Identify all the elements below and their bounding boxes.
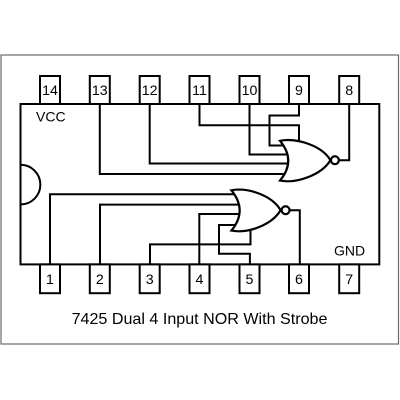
wire pin 13 to gate G2 input	[100, 104, 286, 174]
wire pin 11 strobe to gate G2 top point	[200, 104, 300, 141]
svg-text:6: 6	[295, 272, 303, 288]
IC body 7425	[21, 104, 380, 264]
svg-text:13: 13	[92, 83, 108, 99]
svg-text:14: 14	[42, 83, 58, 99]
pin 7	[339, 264, 359, 293]
schematic frame	[1, 55, 399, 344]
wire pin 9 loop to gate G2 input	[270, 104, 300, 146]
wire pin 12 to gate G2 input	[150, 104, 290, 164]
pin-1 notch	[21, 165, 41, 205]
pin 5	[240, 264, 260, 293]
wire pin 3 strobe to gate G1 bottom point	[150, 230, 251, 265]
svg-text:5: 5	[246, 272, 254, 288]
svg-text:7425 Dual 4 Input NOR With Str: 7425 Dual 4 Input NOR With Strobe	[72, 310, 328, 328]
pin 1	[40, 264, 60, 293]
svg-text:10: 10	[242, 83, 258, 99]
pin 6	[289, 264, 309, 293]
svg-text:1: 1	[46, 272, 54, 288]
pin 3	[140, 264, 160, 293]
svg-text:12: 12	[142, 83, 158, 99]
pin 10	[240, 76, 260, 104]
NOR gate G2 (pins 9,10,11,12,13 -> 8)	[280, 140, 330, 181]
pin 11	[190, 76, 210, 104]
pin 2	[90, 264, 110, 293]
svg-text:GND: GND	[334, 242, 365, 258]
wire pin 10 to gate G2 input	[250, 104, 289, 155]
svg-text:4: 4	[196, 272, 204, 288]
pin 8	[339, 76, 359, 104]
svg-text:7: 7	[345, 272, 353, 288]
pin 4	[190, 264, 210, 293]
inverter bubble G2	[331, 156, 339, 164]
inverter bubble G1	[282, 206, 290, 214]
svg-text:VCC: VCC	[36, 109, 66, 125]
wire gate G2 output to pin 8	[340, 104, 350, 160]
wire pin 5 loop to gate G1 input	[219, 225, 250, 264]
wire pin 2 to gate G1 input	[100, 205, 241, 265]
svg-text:11: 11	[192, 83, 207, 99]
pin 14	[40, 76, 60, 104]
NOR gate G1 (pins 1,2,3,4,5 -> 6)	[231, 190, 280, 232]
svg-text:2: 2	[96, 272, 104, 288]
svg-text:8: 8	[345, 83, 353, 99]
wire pin 4 to gate G1 input	[199, 214, 242, 264]
svg-text:9: 9	[295, 83, 303, 99]
pin 13	[90, 76, 110, 104]
svg-text:3: 3	[146, 272, 154, 288]
pin 12	[140, 76, 160, 104]
wire gate G1 output to pin 6	[290, 210, 300, 264]
pin 9	[289, 76, 309, 104]
wire pin 1 to gate G1 input	[50, 194, 238, 264]
